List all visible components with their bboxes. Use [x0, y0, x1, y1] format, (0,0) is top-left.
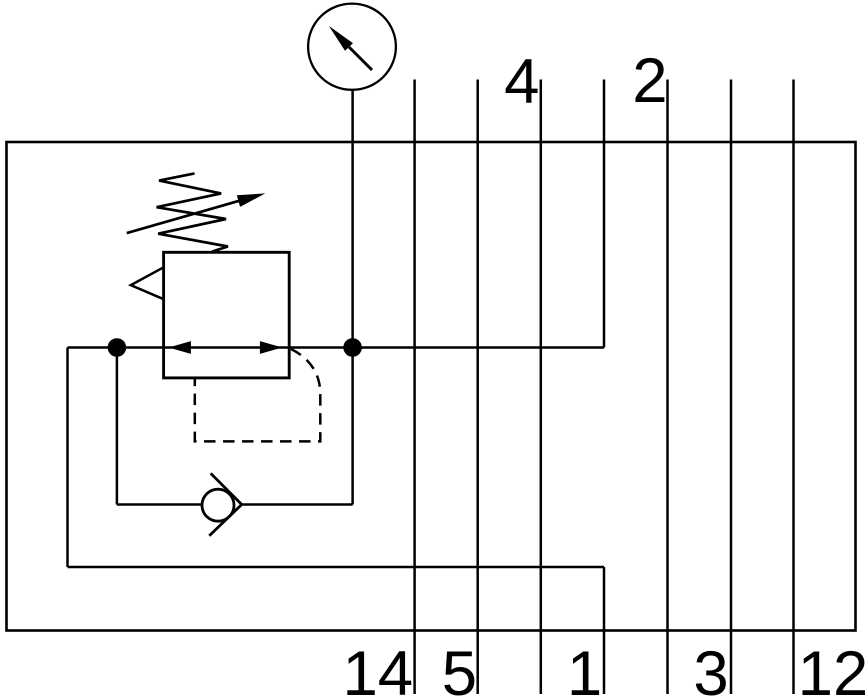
port label 2 [632, 46, 667, 116]
pressure regulator valve body [164, 252, 290, 378]
pressure gauge [308, 4, 396, 90]
node junction right [343, 338, 362, 357]
port label 4 [504, 47, 539, 117]
wire port line 1 upper segment [603, 80, 606, 348]
pilot control dashed line [195, 349, 320, 441]
port label 5 [442, 639, 477, 700]
svg-text:14: 14 [342, 639, 413, 700]
wire port line 4 [540, 80, 543, 695]
wire gauge stem [351, 91, 354, 348]
port label 3 [693, 639, 728, 700]
wire port line 1 lower segment [603, 567, 606, 694]
port label 14 [342, 639, 413, 700]
svg-text:5: 5 [442, 639, 477, 700]
wire port line 14 [413, 80, 416, 695]
adjustment arrow [127, 193, 266, 233]
wire lower return [68, 566, 605, 569]
node junction left [108, 338, 127, 357]
manifold block outline [7, 142, 856, 631]
svg-text:4: 4 [504, 47, 539, 117]
port label 12 [798, 639, 865, 700]
wire port line 2 [666, 80, 669, 695]
wire port line 12 [792, 80, 795, 695]
regulator flow arrow left [169, 341, 191, 354]
svg-text:2: 2 [632, 46, 667, 116]
wire main line [68, 346, 605, 349]
adjustment spring [157, 173, 228, 251]
svg-text:3: 3 [693, 639, 728, 700]
wire right branch down [351, 348, 354, 505]
svg-text:1: 1 [567, 639, 602, 700]
wire port line 3 [730, 80, 733, 695]
wire left branch down [116, 348, 119, 505]
regulator flow arrow right [260, 341, 282, 354]
pilot exhaust triangle [131, 267, 164, 299]
check valve [202, 473, 242, 535]
svg-text:12: 12 [798, 639, 865, 700]
wire port line 5 [476, 80, 479, 695]
wire check line right [242, 503, 353, 506]
port label 1 [567, 639, 602, 700]
wire left drop [66, 348, 69, 568]
wire check line left [117, 503, 202, 506]
